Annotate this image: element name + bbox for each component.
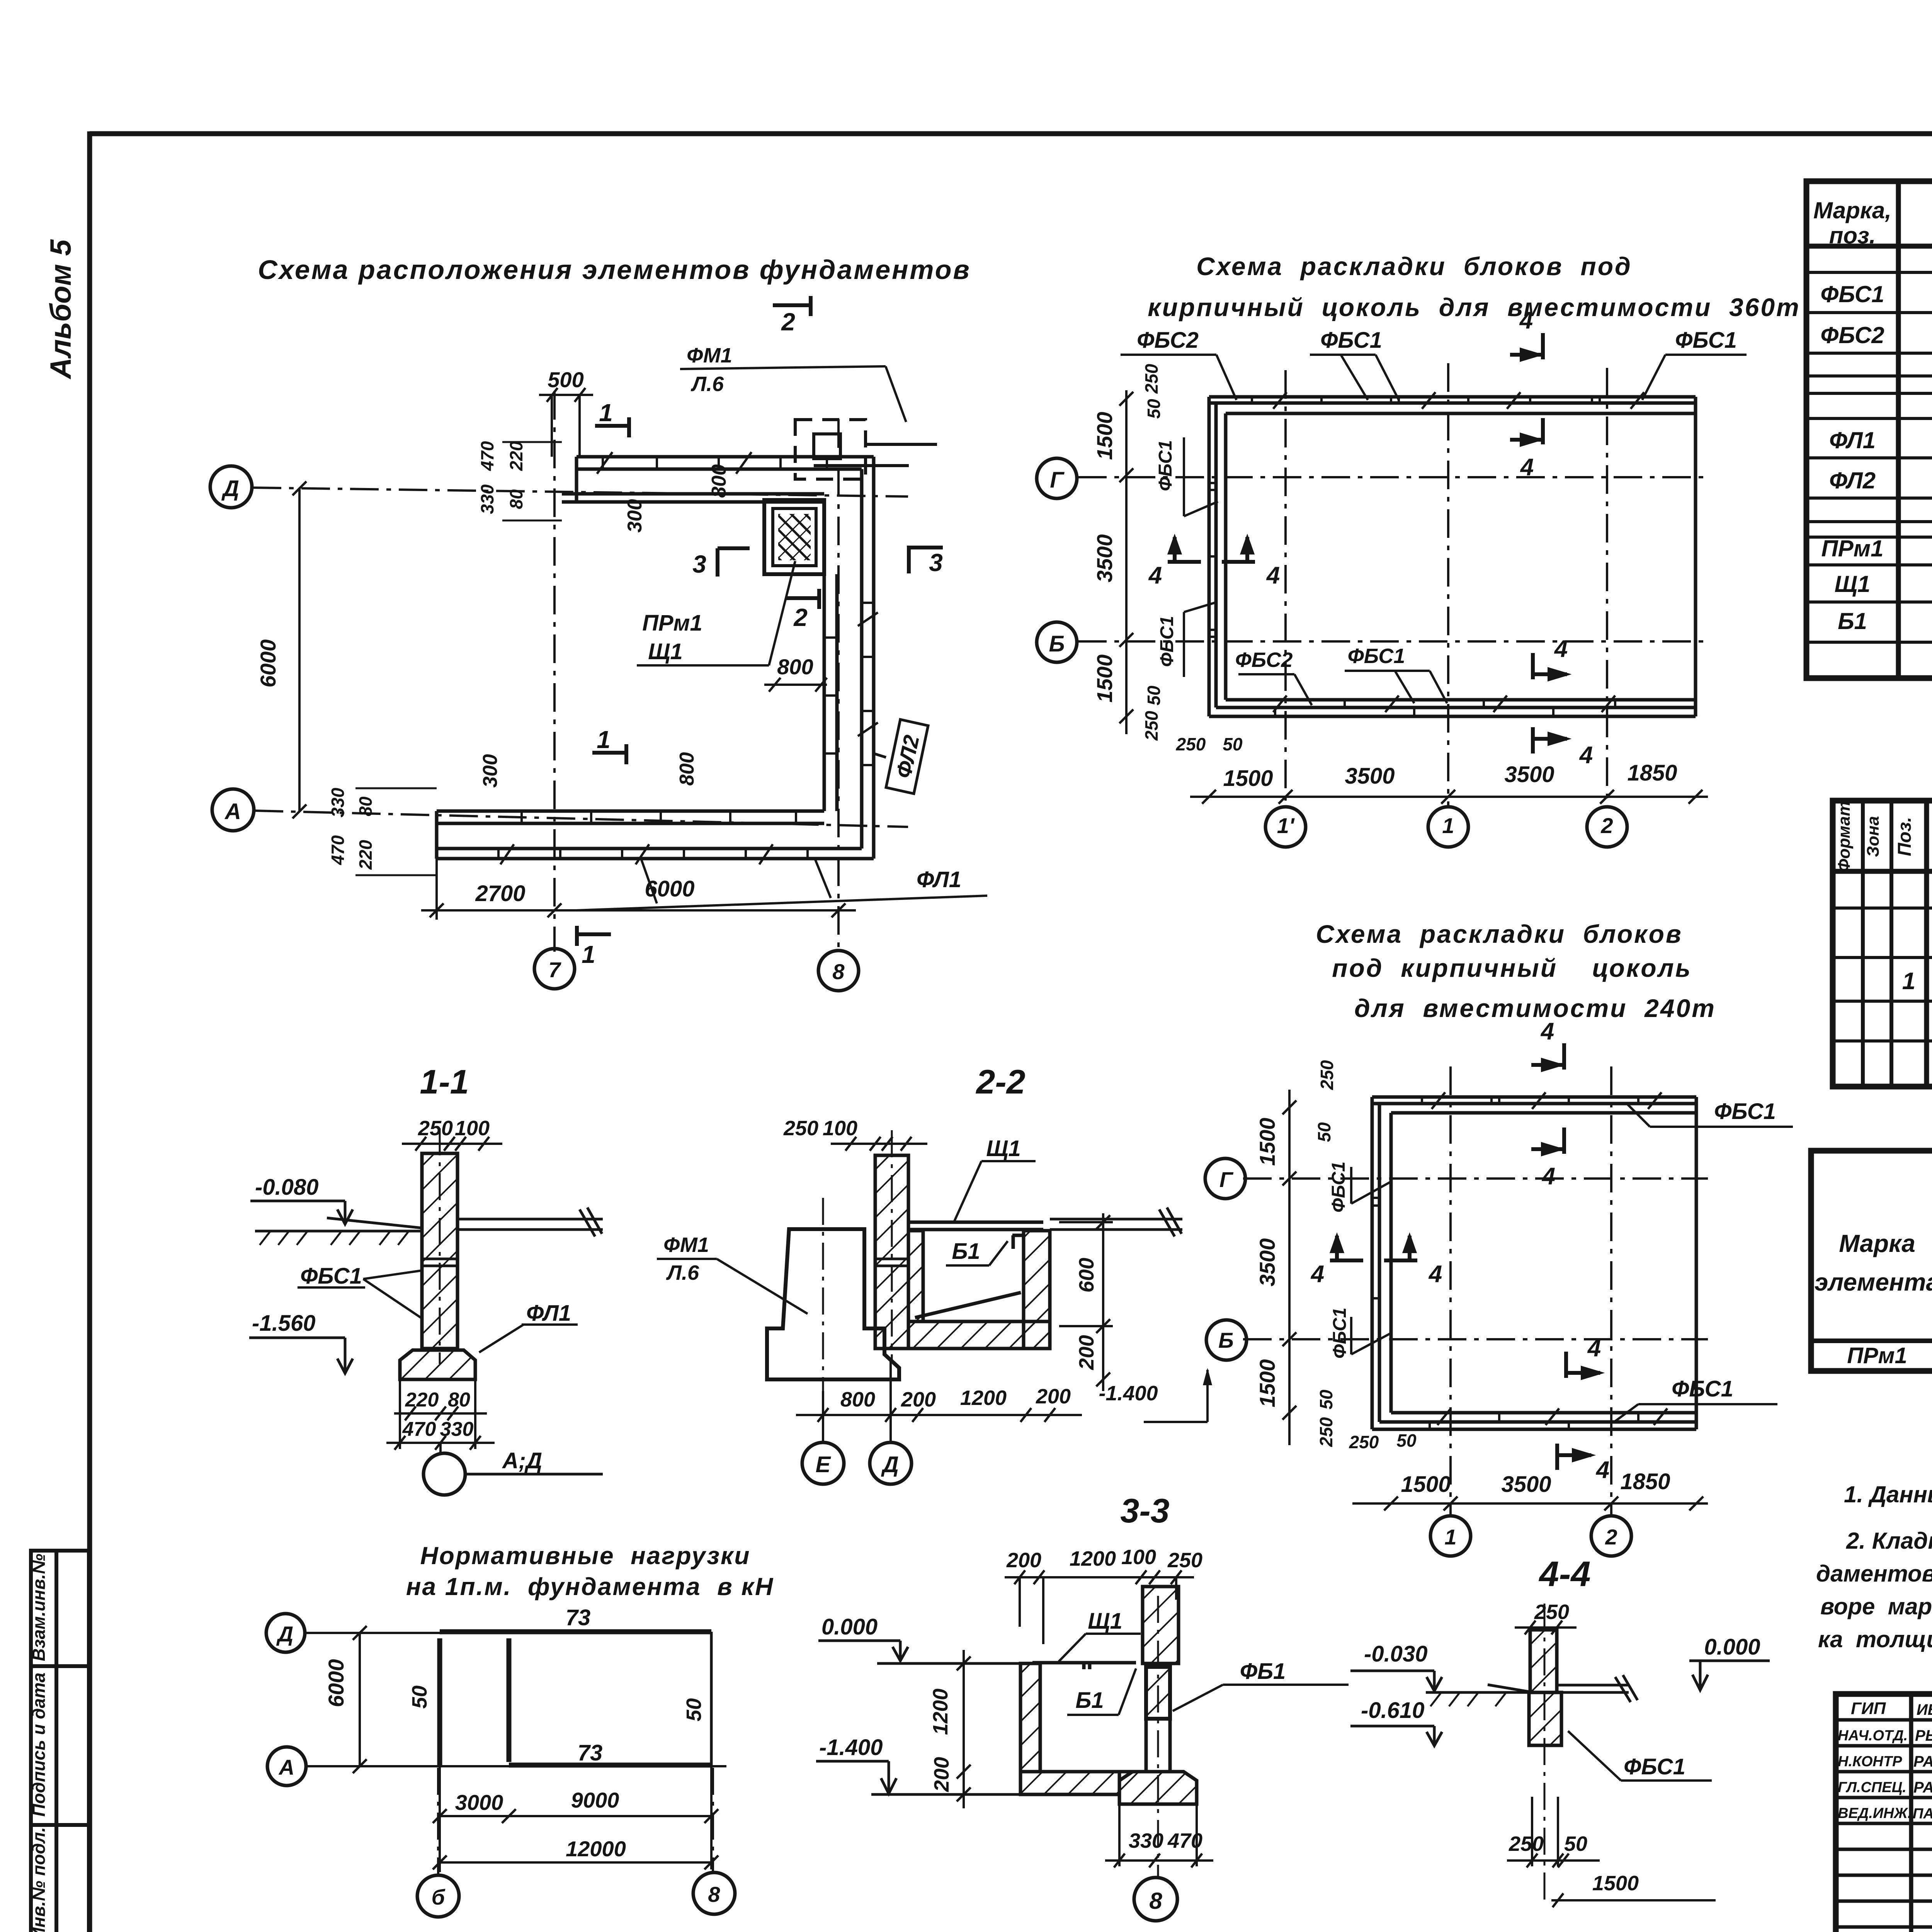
svg-text:б: б xyxy=(432,1885,446,1909)
left dims xyxy=(1119,390,1133,734)
NOTES xyxy=(1816,1481,1932,1652)
axis circles xyxy=(802,1360,912,1484)
svg-text:даментов производить на цеме: даментов производить на цементном раст- xyxy=(1816,1561,1932,1587)
FL2 slanted label xyxy=(874,719,928,794)
svg-text:воре марки М50 по подготовк: воре марки М50 по подготовке из пес- xyxy=(1820,1594,1932,1619)
svg-text:-0.030: -0.030 xyxy=(1364,1641,1427,1667)
svg-text:470: 470 xyxy=(328,835,348,865)
svg-text:ФБС1: ФБС1 xyxy=(1330,1308,1350,1359)
frame border xyxy=(90,131,1932,136)
svg-text:12000: 12000 xyxy=(566,1837,626,1861)
svg-text:100: 100 xyxy=(1121,1546,1156,1569)
svg-text:для вместимости 240т: для вместимости 240т xyxy=(1354,994,1716,1022)
svg-text:0.000: 0.000 xyxy=(821,1614,878,1639)
svg-text:250: 250 xyxy=(783,1117,818,1140)
svg-text:200: 200 xyxy=(901,1388,936,1411)
svg-text:Н.КОНТР: Н.КОНТР xyxy=(1838,1753,1902,1770)
svg-text:поз.: поз. xyxy=(1829,223,1876,248)
svg-text:Б1: Б1 xyxy=(1075,1688,1104,1713)
svg-text:3-3: 3-3 xyxy=(1120,1492,1169,1530)
svg-text:1. Данные о грунтовых условия: 1. Данные о грунтовых условиях см. лист … xyxy=(1844,1481,1932,1507)
axis dash-dot lines xyxy=(253,391,908,954)
LOAD DIAGRAM xyxy=(266,1542,774,1917)
svg-text:ФМ1: ФМ1 xyxy=(663,1233,709,1257)
svg-text:4: 4 xyxy=(1520,454,1534,481)
svg-text:ГИП: ГИП xyxy=(1851,1699,1886,1718)
SPEC TABLE xyxy=(1833,734,1932,1087)
svg-text:Е: Е xyxy=(816,1452,832,1477)
SCHEME 360t xyxy=(1037,252,1801,847)
svg-text:на 1п.м. фундамента в кН: на 1п.м. фундамента в кН xyxy=(406,1573,774,1600)
svg-text:200: 200 xyxy=(1075,1335,1098,1370)
svg-text:1': 1' xyxy=(1277,813,1295,838)
svg-text:1: 1 xyxy=(599,399,613,427)
svg-text:50: 50 xyxy=(1144,399,1164,419)
svg-text:ФЛ2: ФЛ2 xyxy=(1829,468,1876,493)
svg-text:8: 8 xyxy=(832,959,845,984)
MAIN TABLE top right xyxy=(1806,181,1932,678)
svg-text:470: 470 xyxy=(477,441,497,471)
svg-text:1500: 1500 xyxy=(1592,1872,1639,1895)
column below xyxy=(1146,1719,1170,1772)
svg-text:73: 73 xyxy=(566,1605,591,1630)
svg-text:80: 80 xyxy=(506,489,526,509)
svg-text:РАШЕВСКИЙ: РАШЕВСКИЙ xyxy=(1913,1778,1932,1796)
block joints xyxy=(498,452,878,864)
svg-text:ПАНКРАТОВА: ПАНКРАТОВА xyxy=(1913,1806,1932,1822)
pit left wall + slab xyxy=(1020,1663,1146,1794)
section marks xyxy=(577,296,943,946)
svg-text:4: 4 xyxy=(1148,562,1162,589)
svg-text:4: 4 xyxy=(1266,562,1280,589)
svg-text:800: 800 xyxy=(676,752,698,786)
svg-text:Марка: Марка xyxy=(1839,1230,1915,1257)
svg-text:330: 330 xyxy=(328,787,348,817)
svg-text:1850: 1850 xyxy=(1627,760,1677,786)
svg-text:1200: 1200 xyxy=(960,1386,1007,1410)
section 4 flags xyxy=(1168,333,1567,753)
svg-text:Щ1: Щ1 xyxy=(1835,571,1871,597)
PLAN: layout of foundation elements xyxy=(210,255,987,991)
svg-text:ФБС2: ФБС2 xyxy=(1820,322,1884,348)
svg-text:ка толщиной 100мм.: ка толщиной 100мм. xyxy=(1818,1626,1932,1652)
svg-text:ПРм1: ПРм1 xyxy=(1821,536,1884,561)
svg-text:250: 250 xyxy=(1141,711,1162,741)
svg-text:3500: 3500 xyxy=(1092,534,1117,583)
svg-text:ФБ1: ФБ1 xyxy=(1240,1659,1286,1684)
svg-text:3: 3 xyxy=(929,549,943,577)
svg-text:3: 3 xyxy=(692,550,706,578)
svg-text:2: 2 xyxy=(781,308,795,336)
svg-text:Марка,: Марка, xyxy=(1813,197,1891,223)
svg-text:Б1: Б1 xyxy=(1838,608,1867,634)
svg-text:8: 8 xyxy=(708,1882,720,1906)
SCHEME 240t xyxy=(1205,920,1793,1594)
svg-text:Щ1: Щ1 xyxy=(986,1136,1021,1161)
svg-text:ПРм1: ПРм1 xyxy=(642,611,702,636)
SECTION 1-1 xyxy=(249,1063,603,1495)
svg-text:Подпись и дата: Подпись и дата xyxy=(29,1673,49,1817)
svg-text:Б: Б xyxy=(1218,1328,1234,1352)
svg-text:4: 4 xyxy=(1428,1261,1442,1287)
bottom dims xyxy=(1190,790,1708,804)
svg-text:330: 330 xyxy=(1129,1829,1163,1852)
svg-text:А;Д: А;Д xyxy=(502,1448,542,1473)
svg-text:1850: 1850 xyxy=(1620,1469,1670,1494)
svg-text:2-2: 2-2 xyxy=(975,1063,1025,1101)
svg-text:200: 200 xyxy=(1006,1549,1041,1572)
svg-text:ВЕД.ИНЖ.: ВЕД.ИНЖ. xyxy=(1838,1805,1912,1821)
svg-text:ФЛ1: ФЛ1 xyxy=(526,1301,571,1326)
svg-text:50: 50 xyxy=(408,1685,431,1709)
svg-text:ПРм1: ПРм1 xyxy=(1847,1343,1907,1368)
svg-text:2: 2 xyxy=(1605,1525,1617,1549)
svg-text:4: 4 xyxy=(1587,1335,1601,1362)
svg-text:7: 7 xyxy=(548,957,561,982)
svg-text:1200: 1200 xyxy=(1070,1547,1116,1570)
svg-text:Г: Г xyxy=(1219,1167,1234,1192)
svg-text:1500: 1500 xyxy=(1092,655,1117,703)
svg-text:ФБС1: ФБС1 xyxy=(1157,616,1177,667)
svg-text:1500: 1500 xyxy=(1255,1118,1279,1166)
FM1 dashed box xyxy=(795,420,937,479)
svg-text:ФБС1: ФБС1 xyxy=(1624,1754,1685,1779)
svg-text:4: 4 xyxy=(1554,636,1568,662)
svg-text:Взам.инв.№: Взам.инв.№ xyxy=(29,1554,49,1662)
svg-text:ФБС1: ФБС1 xyxy=(1328,1162,1349,1213)
right floor/ground xyxy=(1050,1207,1182,1236)
svg-text:2: 2 xyxy=(1600,813,1613,838)
svg-text:100: 100 xyxy=(455,1117,490,1140)
svg-text:-1.560: -1.560 xyxy=(252,1311,315,1336)
svg-text:300: 300 xyxy=(479,754,502,788)
svg-text:А: А xyxy=(224,799,241,824)
svg-text:ФБС2: ФБС2 xyxy=(1235,648,1293,672)
svg-text:470: 470 xyxy=(402,1418,436,1440)
svg-text:1500: 1500 xyxy=(1223,766,1273,791)
svg-text:250: 250 xyxy=(418,1117,453,1140)
svg-text:80: 80 xyxy=(448,1389,470,1411)
svg-text:-1.400: -1.400 xyxy=(819,1735,883,1760)
svg-text:4: 4 xyxy=(1540,1018,1554,1045)
svg-text:2: 2 xyxy=(793,604,808,631)
svg-text:Щ1: Щ1 xyxy=(1088,1609,1122,1634)
joints xyxy=(1209,392,1644,716)
svg-text:Д: Д xyxy=(221,476,239,501)
svg-text:ИВАНОВА: ИВАНОВА xyxy=(1917,1701,1932,1718)
svg-text:ФБС1: ФБС1 xyxy=(1714,1099,1776,1124)
svg-text:2700: 2700 xyxy=(475,881,525,906)
svg-text:Схема расположения элементов ф: Схема расположения элементов фундаментов xyxy=(258,255,971,285)
svg-text:ФБС1: ФБС1 xyxy=(1820,281,1884,307)
svg-text:4: 4 xyxy=(1519,307,1533,334)
svg-text:220: 220 xyxy=(355,840,376,870)
svg-text:220: 220 xyxy=(506,441,526,471)
bands xyxy=(1209,397,1696,716)
svg-text:1500: 1500 xyxy=(1401,1472,1451,1497)
svg-text:1500: 1500 xyxy=(1092,412,1117,460)
svg-text:200: 200 xyxy=(1036,1385,1071,1408)
svg-text:2. Кладку бетонных блоков лент: 2. Кладку бетонных блоков ленточных фун- xyxy=(1846,1528,1932,1554)
svg-text:4: 4 xyxy=(1595,1457,1609,1483)
svg-text:ФБС1: ФБС1 xyxy=(1320,328,1382,353)
svg-text:1: 1 xyxy=(582,940,595,968)
svg-text:Л.6: Л.6 xyxy=(690,372,724,396)
svg-text:1500: 1500 xyxy=(1255,1359,1279,1408)
svg-text:4: 4 xyxy=(1579,742,1593,769)
svg-text:ФБС1: ФБС1 xyxy=(300,1264,362,1289)
svg-text:-0.080: -0.080 xyxy=(255,1175,318,1200)
svg-text:250: 250 xyxy=(1349,1432,1379,1452)
svg-text:ФМ1: ФМ1 xyxy=(687,344,732,367)
svg-text:РАШЕВСКИЙ: РАШЕВСКИЙ xyxy=(1913,1752,1932,1770)
svg-text:ФБС1: ФБС1 xyxy=(1155,440,1176,491)
svg-text:Инв.№ подл.: Инв.№ подл. xyxy=(29,1827,49,1932)
wall xyxy=(422,1153,457,1349)
ground + floor xyxy=(255,1207,603,1236)
right wall column top xyxy=(1143,1587,1179,1663)
svg-text:50: 50 xyxy=(1314,1122,1334,1142)
svg-text:ФБС1: ФБС1 xyxy=(1675,328,1737,353)
svg-text:1: 1 xyxy=(1902,968,1915,995)
svg-text:800: 800 xyxy=(777,655,813,679)
svg-text:ФБС1: ФБС1 xyxy=(1672,1376,1733,1401)
svg-text:330: 330 xyxy=(477,484,497,514)
svg-text:3500: 3500 xyxy=(1504,762,1554,787)
svg-text:Формат: Формат xyxy=(1835,801,1854,872)
svg-text:под кирпичный цоколь: под кирпичный цоколь xyxy=(1332,954,1692,982)
svg-text:50: 50 xyxy=(1396,1430,1417,1451)
svg-text:8: 8 xyxy=(1149,1888,1162,1914)
svg-text:3500: 3500 xyxy=(1345,764,1395,789)
svg-text:250: 250 xyxy=(1316,1417,1336,1447)
svg-text:4: 4 xyxy=(1310,1261,1324,1287)
svg-text:Б: Б xyxy=(1049,631,1065,656)
svg-text:250: 250 xyxy=(1317,1060,1337,1090)
svg-text:Альбом 5: Альбом 5 xyxy=(44,239,77,379)
svg-text:1200: 1200 xyxy=(929,1689,952,1735)
svg-text:1-1: 1-1 xyxy=(420,1063,469,1101)
TITLE BLOCK xyxy=(1836,1694,1932,1932)
svg-text:220: 220 xyxy=(405,1389,439,1411)
svg-text:ФБС2: ФБС2 xyxy=(1137,328,1199,353)
svg-text:Щ1: Щ1 xyxy=(648,639,683,664)
svg-text:Л.6: Л.6 xyxy=(666,1261,699,1284)
ground & floor xyxy=(1426,1675,1638,1702)
SECTION 4-4 drawing xyxy=(1350,1600,1770,1907)
svg-text:250: 250 xyxy=(1509,1832,1544,1855)
svg-text:80: 80 xyxy=(355,796,376,816)
foundation strips xyxy=(437,457,874,859)
svg-text:50: 50 xyxy=(1223,734,1243,754)
footing xyxy=(400,1350,475,1379)
svg-text:1: 1 xyxy=(1442,813,1454,838)
svg-text:4: 4 xyxy=(1541,1163,1555,1190)
pit xyxy=(908,1222,1050,1349)
svg-text:Схема раскладки блоков под: Схема раскладки блоков под xyxy=(1196,252,1632,281)
svg-text:4-4: 4-4 xyxy=(1539,1554,1591,1594)
footing xyxy=(1119,1772,1197,1804)
wall column xyxy=(875,1155,908,1349)
pit PRm1 square xyxy=(764,500,824,574)
svg-text:50: 50 xyxy=(682,1698,706,1721)
svg-text:Схема раскладки блоков: Схема раскладки блоков xyxy=(1316,920,1683,948)
svg-text:Д: Д xyxy=(881,1452,899,1477)
svg-text:250: 250 xyxy=(1167,1549,1202,1572)
svg-text:А: А xyxy=(278,1755,294,1779)
svg-text:50: 50 xyxy=(1564,1832,1587,1855)
svg-text:кирпичный цоколь для вмести: кирпичный цоколь для вместимости 360т xyxy=(1148,293,1801,321)
IZDELIYA ZAKLADNIE TABLE xyxy=(1811,1151,1932,1371)
svg-text:РЫБКИНА: РЫБКИНА xyxy=(1915,1727,1932,1744)
svg-text:50: 50 xyxy=(1144,685,1164,706)
small stacked dims near D axis xyxy=(328,441,526,870)
axis circle xyxy=(423,1453,465,1495)
svg-text:ФБС1: ФБС1 xyxy=(1348,645,1405,668)
svg-text:-0.610: -0.610 xyxy=(1361,1698,1424,1723)
svg-text:800: 800 xyxy=(840,1388,875,1411)
svg-text:250: 250 xyxy=(1176,734,1206,754)
SECTION 2-2 xyxy=(657,1063,1212,1530)
svg-text:600: 600 xyxy=(1075,1258,1098,1293)
svg-text:3500: 3500 xyxy=(1255,1238,1279,1287)
svg-text:Зона: Зона xyxy=(1864,816,1883,857)
svg-text:Д: Д xyxy=(276,1622,293,1646)
svg-text:1: 1 xyxy=(1444,1525,1456,1549)
svg-text:300: 300 xyxy=(624,499,646,533)
svg-text:элемента: элемента xyxy=(1815,1268,1932,1296)
SECTION 3-3 xyxy=(816,1546,1349,1921)
svg-text:73: 73 xyxy=(578,1740,603,1765)
svg-text:-1.400: -1.400 xyxy=(1099,1382,1158,1405)
svg-text:Г: Г xyxy=(1050,468,1065,493)
svg-text:1: 1 xyxy=(597,726,611,753)
left stamp boxes xyxy=(31,1551,89,1932)
svg-text:50: 50 xyxy=(1316,1389,1336,1410)
svg-text:0.000: 0.000 xyxy=(1704,1634,1760,1660)
svg-text:ГЛ.СПЕЦ.: ГЛ.СПЕЦ. xyxy=(1838,1779,1906,1796)
svg-text:250: 250 xyxy=(1534,1600,1569,1624)
svg-text:100: 100 xyxy=(823,1117,857,1140)
svg-text:3000: 3000 xyxy=(455,1790,503,1815)
svg-text:ФЛ1: ФЛ1 xyxy=(917,867,961,892)
FB1 block xyxy=(1146,1667,1170,1719)
svg-text:9000: 9000 xyxy=(571,1788,619,1812)
svg-text:200: 200 xyxy=(930,1757,953,1792)
svg-text:6000: 6000 xyxy=(324,1659,348,1708)
svg-text:Нормативные нагрузки: Нормативные нагрузки xyxy=(420,1542,750,1570)
svg-text:Б1: Б1 xyxy=(952,1239,980,1264)
svg-text:НАЧ.ОТД.: НАЧ.ОТД. xyxy=(1838,1728,1908,1744)
svg-text:Поз.: Поз. xyxy=(1895,817,1915,856)
svg-text:250: 250 xyxy=(1141,364,1162,394)
axis circles xyxy=(210,466,859,991)
FM1 footing xyxy=(767,1229,899,1379)
svg-text:800: 800 xyxy=(708,464,730,498)
svg-text:ФЛ1: ФЛ1 xyxy=(1829,427,1876,453)
svg-text:6000: 6000 xyxy=(256,639,280,688)
svg-text:500: 500 xyxy=(548,367,583,392)
svg-text:3500: 3500 xyxy=(1501,1472,1551,1497)
